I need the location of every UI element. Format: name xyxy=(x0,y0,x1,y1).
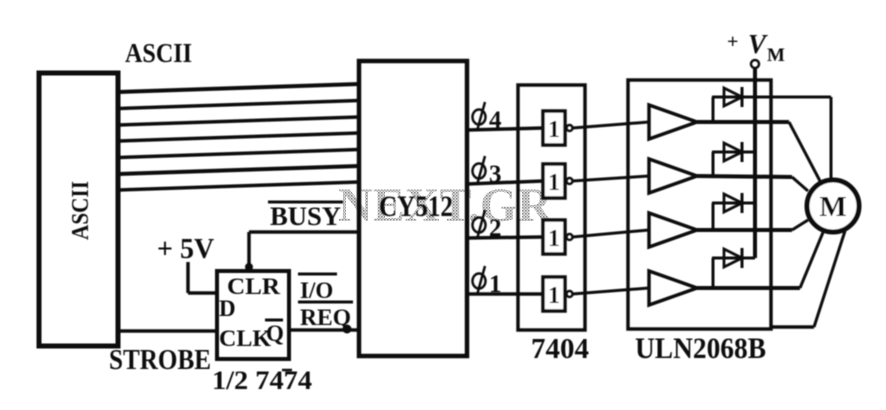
wire motor top vertical xyxy=(830,97,833,181)
+VM supply terminal xyxy=(727,29,785,68)
svg-text:1: 1 xyxy=(548,226,560,252)
REQ label xyxy=(298,302,353,330)
wire bus line 7 xyxy=(119,182,359,190)
svg-text:STROBE: STROBE xyxy=(109,345,211,376)
svg-text:CLK: CLK xyxy=(219,326,271,351)
diode D4 xyxy=(712,248,755,288)
wire bus line 2 xyxy=(119,101,359,109)
wire phi1 CY512 to 7404 xyxy=(467,292,543,296)
junction dot at 7474 CLR xyxy=(245,263,253,271)
svg-text:7404: 7404 xyxy=(531,333,589,365)
svg-text:+ 5V: + 5V xyxy=(157,234,214,265)
svg-text:Q: Q xyxy=(266,321,284,346)
wire BUSY horizontal xyxy=(249,230,359,234)
driver amp 3 xyxy=(649,213,697,247)
svg-text:1: 1 xyxy=(548,117,560,143)
inverter gate 2 xyxy=(543,164,573,198)
wire bus line 4 xyxy=(119,133,359,141)
wire STROBE xyxy=(118,329,217,333)
wire common tap diagonal to motor xyxy=(814,231,845,327)
node phi3 label xyxy=(473,156,502,188)
BUSY label xyxy=(268,202,343,231)
wire +VM rail A vertical xyxy=(753,68,757,258)
wire output2 diagonal to motor xyxy=(792,177,808,191)
diode D2 xyxy=(712,142,755,176)
diode D1 xyxy=(712,87,755,122)
svg-text:V: V xyxy=(748,29,768,59)
flip-flop 7474 box U3 xyxy=(217,271,289,359)
node phi2 label xyxy=(473,210,502,242)
wire bus line 6 xyxy=(119,166,359,174)
wire inverter4 to ULN in4 xyxy=(573,288,650,294)
wire output1 diagonal to motor xyxy=(789,122,820,181)
svg-text:BUSY: BUSY xyxy=(270,202,341,231)
wire output4 diagonal to motor xyxy=(800,230,824,288)
inverter gate 3 xyxy=(543,220,573,254)
driver amp 2 xyxy=(649,159,697,193)
wire output2 xyxy=(697,176,792,177)
svg-text:REQ: REQ xyxy=(300,305,351,330)
svg-text:ULN2068B: ULN2068B xyxy=(635,332,766,365)
motor M1 xyxy=(807,180,859,232)
pin label Qbar xyxy=(265,320,284,346)
wire bus line 1 xyxy=(119,84,359,92)
svg-text:ASCII: ASCII xyxy=(125,38,192,68)
wire output3 diagonal to motor xyxy=(792,220,808,230)
7404 hex inverter box U4 xyxy=(518,85,585,330)
wire Qbar to CY512 I/O REQ xyxy=(289,328,359,332)
CY512 controller box U2 xyxy=(359,61,467,356)
wire bus line 5 xyxy=(119,150,359,158)
node phi4 label xyxy=(473,102,503,134)
ASCII interface box U-left xyxy=(39,73,118,346)
wire output4 xyxy=(697,286,800,290)
I/O label xyxy=(298,274,337,303)
wire inverter1 to ULN in1 xyxy=(573,122,650,128)
driver amp 1 xyxy=(649,105,697,139)
wire inverter3 to ULN in3 xyxy=(573,230,650,237)
svg-text:I/O: I/O xyxy=(300,278,333,303)
svg-text:CY512: CY512 xyxy=(379,190,453,223)
svg-text:1: 1 xyxy=(548,170,560,196)
watermark NEXT.GR xyxy=(338,179,553,232)
wire inverter2 to ULN in2 xyxy=(573,176,650,181)
wire +5V to 7474 D xyxy=(188,291,217,295)
wire BUSY vertical to 7474 CLR xyxy=(247,232,251,271)
svg-text:1/2 7474: 1/2 7474 xyxy=(212,366,312,395)
wire common tap from ULN corner xyxy=(771,325,814,329)
node phi1 label xyxy=(473,266,502,298)
wire motor top horizontal xyxy=(755,96,831,99)
wire output1 xyxy=(697,120,789,124)
driver amp 4 xyxy=(649,271,697,305)
ULN2068B driver box U5 xyxy=(628,80,771,329)
diode D3 xyxy=(712,193,755,230)
wire output3 xyxy=(697,228,792,232)
1/2 7474 label xyxy=(212,366,312,395)
svg-text:D: D xyxy=(219,296,236,321)
wire +5V vertical xyxy=(186,262,190,293)
wire phi2 CY512 to 7404 xyxy=(467,237,543,238)
svg-text:+: + xyxy=(727,31,738,53)
svg-text:M: M xyxy=(767,45,785,66)
svg-text:M: M xyxy=(819,191,846,223)
junction dot on REQ wire xyxy=(343,325,352,334)
wire phi4 CY512 to 7404 xyxy=(467,128,543,130)
svg-text:ASCII: ASCII xyxy=(68,181,94,240)
svg-text:1: 1 xyxy=(548,283,560,309)
inverter gate 1 xyxy=(543,111,573,145)
inverter gate 4 xyxy=(543,277,573,311)
wire phi3 CY512 to 7404 xyxy=(467,181,543,184)
wire bus line 3 xyxy=(119,117,359,125)
